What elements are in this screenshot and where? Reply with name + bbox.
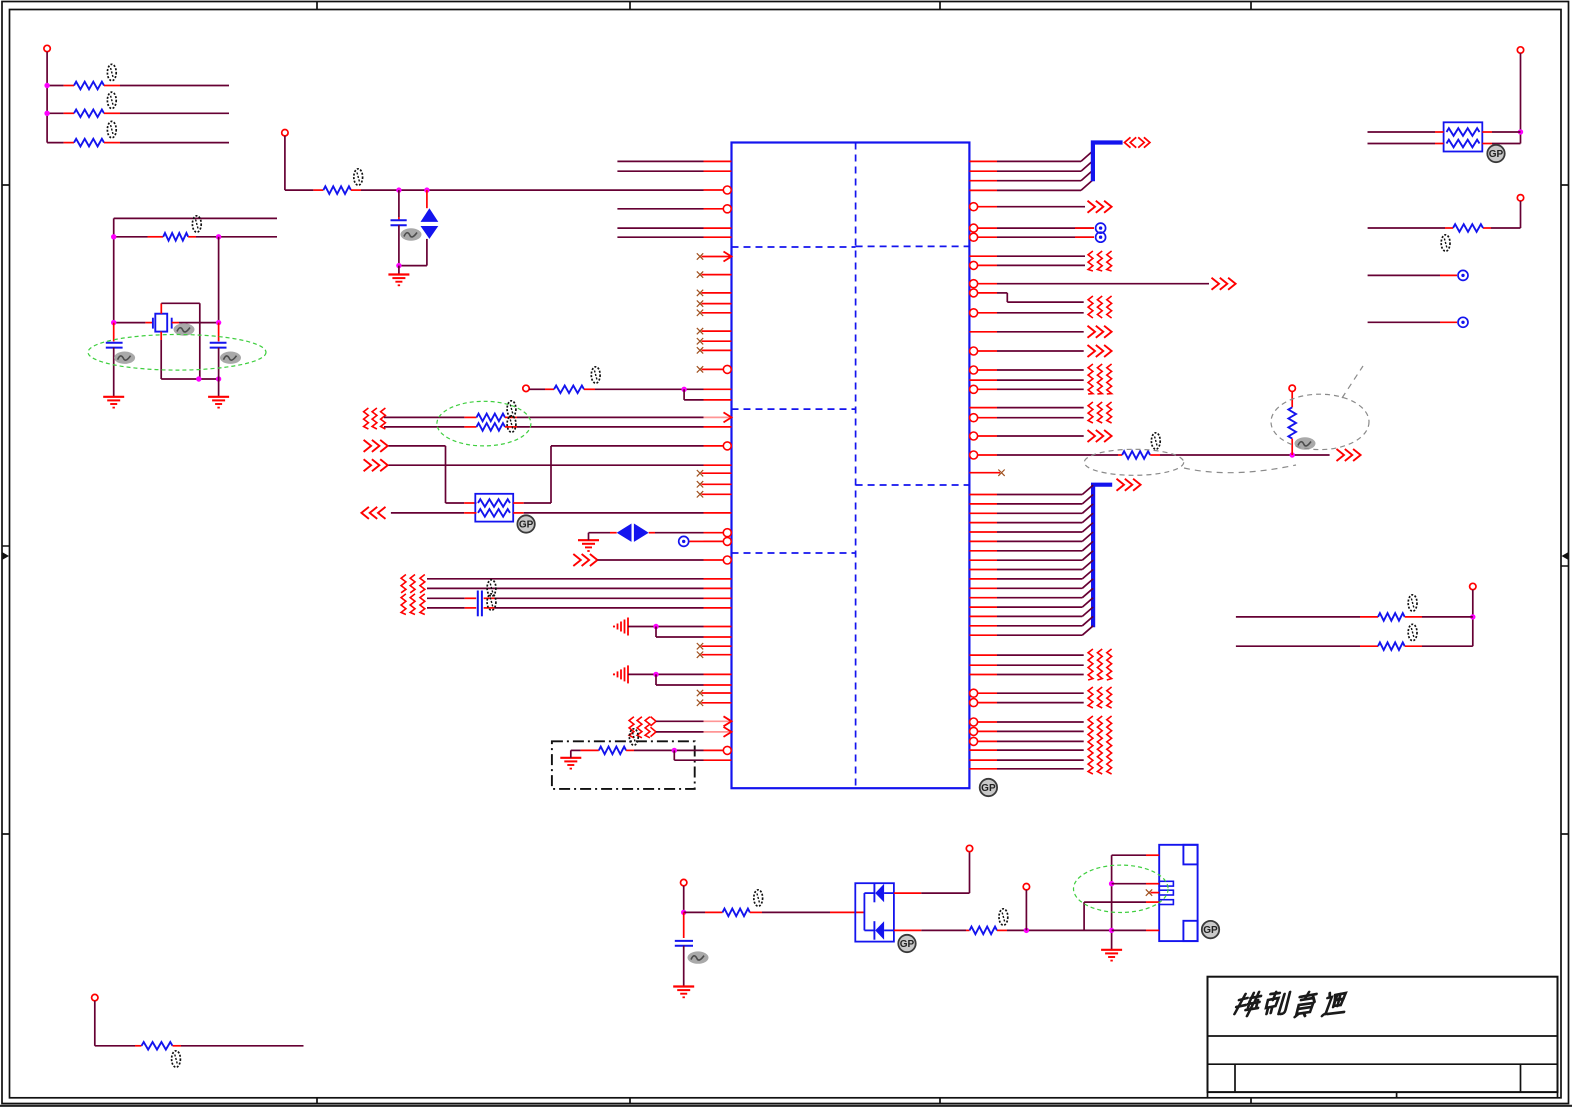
svg-text:GP: GP [900, 939, 915, 950]
svg-text:GP: GP [1489, 149, 1504, 160]
svg-text:GP: GP [1203, 925, 1218, 936]
svg-text:GP: GP [519, 519, 534, 530]
svg-text:GP: GP [981, 783, 996, 794]
